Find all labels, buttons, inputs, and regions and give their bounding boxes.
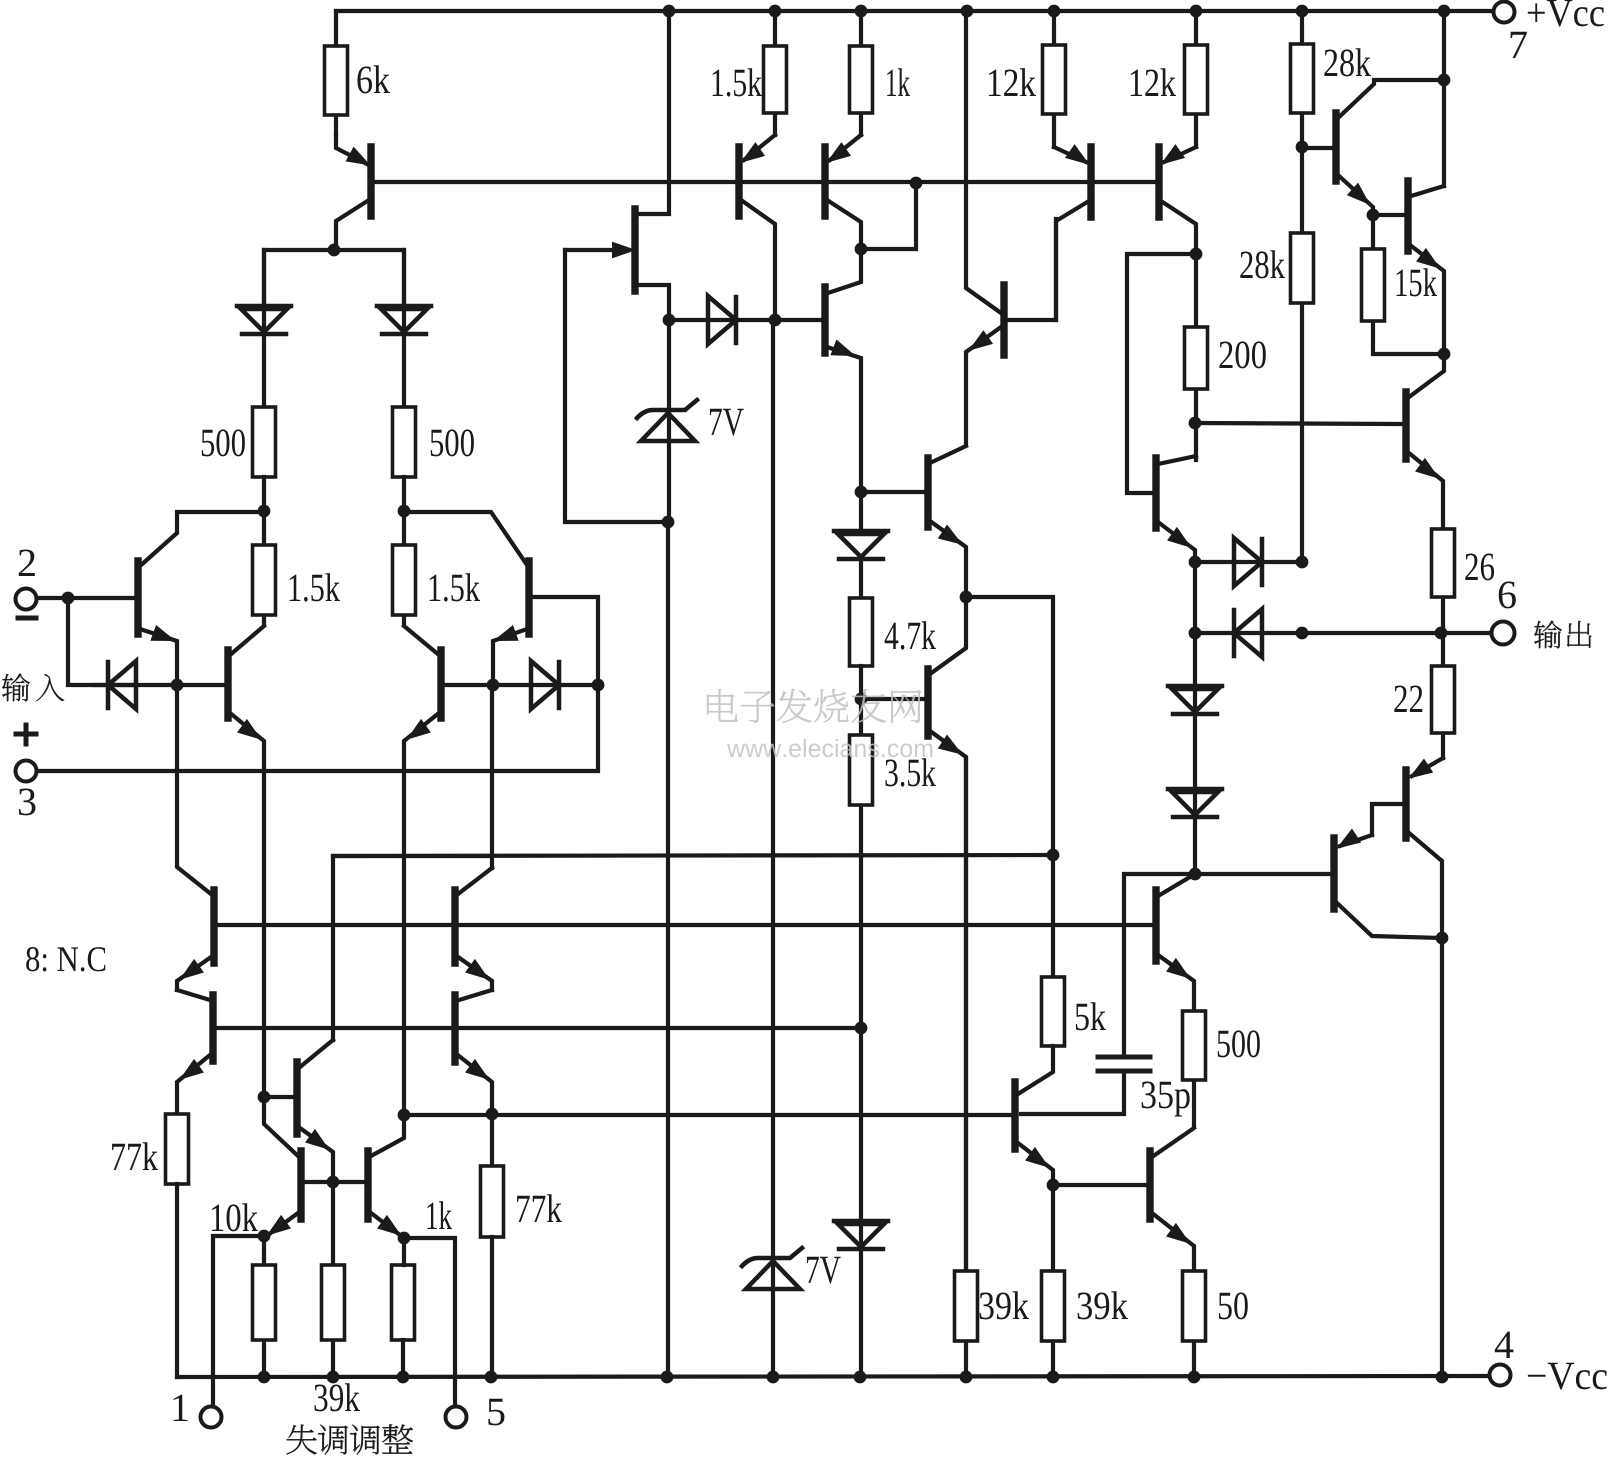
node dot (861,1028) (855, 1022, 868, 1035)
label 77k-R (517, 1194, 562, 1222)
diode D1 level-shift left (237, 304, 291, 309)
transistor Q9 emitter arrow (939, 526, 960, 543)
transistor Q24 emitter arrow (467, 961, 487, 978)
transistor Q4 emitter lead (493, 629, 527, 685)
transistor Q26 base bar (293, 1062, 300, 1134)
node dot (1442,938) (1436, 932, 1449, 945)
transistor Q11 collector lead (1056, 201, 1089, 320)
wire Q28 base (333, 1180, 365, 1184)
node A1 dot (264,511) (258, 505, 271, 518)
label pin 2 (19, 550, 35, 576)
transistor Q25 emitter arrow (467, 1061, 487, 1078)
resistor 77k-R (481, 1166, 504, 1237)
node tail node dot (334,250) (328, 244, 341, 257)
wire Q15 base (1373, 213, 1405, 217)
transistor Q5 collector lead (404, 626, 439, 655)
diode D10 (1168, 684, 1222, 689)
wire 77k-L to rail (175, 1184, 179, 1377)
transistor Q21 emitter arrow (1339, 830, 1360, 847)
wire diode row y=633 (1195, 562, 1490, 633)
transistor Q13 emitter arrow (1169, 529, 1189, 546)
transistor Q4 emitter arrow (496, 627, 517, 640)
label pin 4 (1495, 1332, 1514, 1358)
terminal -Vcc pin 4 circle (1490, 1365, 1511, 1386)
label 7V lower (807, 1257, 841, 1284)
transistor Q20 emitter lead (1412, 758, 1443, 776)
resistor 1k wires (859, 11, 863, 135)
node dot (1373,215) (1367, 209, 1380, 222)
transistor Q5 emitter arrow (409, 721, 429, 738)
resistor offset-mid (322, 1265, 345, 1340)
transistor Q15 emitter lead (1410, 245, 1444, 354)
transistor Q22 emitter arrow (182, 961, 202, 978)
resistor 1.5k left (253, 545, 276, 615)
diode D10 wires (1193, 633, 1197, 874)
wire 4.7k to node (859, 666, 863, 699)
label 35p (1142, 1082, 1190, 1117)
label 10k (212, 1203, 258, 1231)
transistor Q3 emitter arrow (239, 721, 259, 738)
transistor Q15 emitter arrow (1418, 250, 1438, 267)
transistor Q16 collector lead (1158, 874, 1195, 896)
label 39k-2 (1078, 1291, 1128, 1319)
node dot (1444,354) (1438, 348, 1451, 361)
resistor 39k-1 wires (964, 759, 968, 1377)
label 26 (1465, 554, 1494, 581)
transistor Q9c emitter arrow (971, 332, 991, 349)
node dot (1196,254) (1190, 248, 1203, 261)
transistor Q25 base bar (451, 995, 458, 1062)
zener Z1 7V (637, 400, 697, 418)
node -Vcc rail junction dots (258, 1371, 271, 1384)
transistor Q5 base bar (437, 650, 444, 718)
transistor Q24 collector lead (458, 868, 492, 894)
node dot (1195,562) (1189, 556, 1202, 569)
label +Vcc (1528, 0, 1604, 27)
transistor Q13 base bar (1152, 458, 1159, 528)
transistor Q22 collector lead (177, 685, 211, 894)
transistor Q16 emitter lead (1158, 955, 1194, 1011)
transistor Q8 base bar (821, 287, 828, 353)
label 7V upper (710, 409, 744, 436)
terminal pin 5 circle (446, 1407, 467, 1428)
transistor Q18 emitter lead (1018, 1143, 1053, 1185)
transistor Q2 emitter arrow (152, 627, 173, 640)
label 77k-L (112, 1142, 158, 1170)
transistor Q27 emitter lead (264, 1213, 298, 1238)
resistor 39k-1 (955, 1271, 978, 1341)
label 8 N.C (26, 947, 105, 971)
transistor Q3 base bar (224, 650, 231, 718)
resistor 15k (1362, 249, 1385, 321)
node dot (775,320) (769, 314, 782, 327)
node dot (1302,633) (1296, 627, 1309, 640)
transistor Q7 emitter arrow (829, 144, 849, 161)
jfet J1 gate wire (565, 248, 614, 252)
wire -Vcc rail (177, 1376, 1489, 1377)
watermark (707, 689, 932, 757)
label 500 right (431, 429, 474, 456)
resistor 26 (1432, 529, 1455, 597)
wire 5k top (1051, 855, 1055, 977)
node dot (966,597) (960, 591, 973, 604)
node bus dot x=916 (910, 177, 923, 190)
label 50 (1219, 1292, 1248, 1319)
wire diode row y=562 (1195, 560, 1302, 564)
transistor Q8 collector lead (828, 249, 861, 293)
label 5k (1076, 1002, 1106, 1030)
wire pin3 to right cell base (37, 597, 598, 771)
transistor Q9c collector lead (966, 11, 1001, 313)
node dot (861,699) (855, 693, 868, 706)
wire D3 to Q3 base (94, 683, 225, 687)
resistor 1.5k left wires (262, 511, 266, 624)
transistor Q26 emitter lead (300, 1128, 333, 1182)
wire left bottom resistor (262, 1236, 266, 1377)
resistor 22 wires (1441, 633, 1445, 758)
transistor Q9c emitter lead (966, 327, 1001, 444)
transistor Q18 base bar (1011, 1082, 1018, 1149)
transistor Q1 emitter lead (336, 135, 367, 164)
transistor Q23 collector lead (177, 990, 210, 1000)
transistor Q7 collector lead (827, 200, 861, 249)
node A2 dot (404,511) (398, 505, 411, 518)
resistor 200 (1185, 327, 1208, 389)
transistor Q25 emitter lead (459, 1056, 492, 1166)
node dot (1053,855) (1047, 849, 1060, 862)
label plus above pin 3 (16, 725, 36, 744)
transistor Q20 base bar (1402, 770, 1409, 838)
node dot (492,1114) (486, 1108, 499, 1121)
diode D3 input clamp left (108, 661, 136, 709)
label 28k first (1324, 48, 1371, 76)
node dot (668,522) (662, 516, 675, 529)
transistor Q21 collector lead (1337, 903, 1442, 938)
wire D1 to R-500L (262, 250, 266, 407)
label 4.7k (885, 621, 936, 649)
label 500 left (202, 429, 245, 456)
node right cell dot (598,685) (592, 679, 605, 692)
wire (1196,254)-(1127,254)-(1127,493)-Q13 base (1127, 254, 1196, 493)
transistor Q23 emitter lead (177, 1055, 210, 1114)
zener Z2 7V (742, 1248, 802, 1266)
wire Q14 base (1302, 146, 1333, 150)
transistor Q28 collector lead (371, 1115, 404, 1156)
label output 输出 (1534, 621, 1592, 649)
resistor 500 left (253, 407, 276, 477)
transistor Q10 base bar (924, 669, 931, 736)
label 12k second (1131, 68, 1176, 96)
transistor Q16 emitter arrow (1168, 960, 1188, 977)
node +Vcc rail junction dots (663, 5, 676, 18)
transistor Q5 emitter lead (404, 713, 439, 1115)
node dot (404,1115) (398, 1109, 411, 1122)
resistor 500 vas (1183, 1011, 1206, 1080)
transistor Q10 emitter lead (930, 731, 966, 1271)
transistor Q23 emitter arrow (182, 1061, 202, 1078)
resistor offset-right (392, 1265, 415, 1340)
transistor Q13 collector lead (1158, 456, 1196, 464)
wire Q16 base bus y=925 (215, 923, 1153, 927)
transistor Q23 base bar (209, 995, 216, 1061)
transistor Q3 emitter lead (230, 713, 264, 1097)
transistor Q14 base bar (1332, 113, 1339, 181)
wire Q5 base row (444, 683, 598, 687)
wire lower bus y=1028 (215, 1026, 861, 1030)
label 39k bottom (314, 1383, 359, 1411)
wire D2 to R-500R (402, 250, 406, 407)
resistor 12k first (1043, 45, 1066, 114)
transistor Q27 collector lead (264, 1097, 298, 1156)
transistor Q20 emitter arrow (1411, 760, 1432, 777)
resistor 1.5k right (393, 545, 416, 615)
resistor 50 (1183, 1271, 1206, 1341)
transistor Q6 emitter lead (744, 135, 775, 160)
resistor 5k (1042, 977, 1065, 1046)
terminal output pin 6 circle (1492, 622, 1515, 645)
transistor Qout1 base bar (1402, 392, 1409, 459)
resistor 28k first wires (1300, 11, 1304, 147)
node dot (264,1097) (258, 1091, 271, 1104)
wire y=1114 long (402, 1113, 406, 1117)
resistor 500 right (393, 407, 416, 477)
label pin 7 (1511, 32, 1527, 58)
wire zener Z1 wires (668, 320, 669, 1377)
transistor Q7 emitter lead (830, 135, 861, 160)
wire pin5 branch (403, 1238, 455, 1406)
transistor Q13 emitter lead (1158, 522, 1195, 562)
wire base bus y=182 (373, 180, 1157, 184)
transistor Q16 base bar (1152, 890, 1159, 961)
transistor Q4 base bar (525, 561, 532, 634)
transistor Q11 emitter arrow (1067, 146, 1087, 163)
transistor Q24 base bar (451, 890, 458, 963)
node dot (1195,633) (1189, 627, 1202, 640)
wire 77k-R to rail (490, 1237, 494, 1377)
transistor Q18 collector lead (1018, 1046, 1053, 1094)
transistor Q12 emitter arrow (1163, 146, 1183, 163)
terminal pin 3 non-inverting input circle (16, 761, 37, 782)
capacitor C1 35p (1098, 1057, 1150, 1071)
transistor Q7 base bar (821, 147, 828, 216)
transistor Q12 emitter lead (1164, 147, 1196, 162)
transistor Q28 emitter arrow (379, 1217, 399, 1234)
wire Q24 collector loop (333, 685, 492, 1040)
transistor Q2 base bar (134, 561, 141, 634)
label 1k small (427, 1201, 452, 1229)
node dot (1053,1185) (1047, 1179, 1060, 1192)
wire cap bottom to Q18 base (1021, 1071, 1124, 1114)
resistor 22 (1432, 666, 1455, 733)
diode D4 input clamp right (531, 661, 559, 709)
transistor Q19 emitter lead (1152, 1213, 1194, 1271)
transistor Q28 base bar (364, 1151, 371, 1219)
label pin 3 (19, 789, 36, 816)
transistor Q15 base bar (1404, 181, 1411, 251)
resistor 77k-L (166, 1114, 189, 1184)
resistor 3.5k (850, 735, 873, 805)
label pin 6 (1499, 582, 1516, 609)
transistor Q10 emitter arrow (939, 736, 960, 753)
label pin 1 (174, 1395, 188, 1421)
diode D5 (708, 296, 736, 344)
node dot (404,1238) (398, 1232, 411, 1245)
label 6k (357, 65, 390, 93)
wire tail node horizontal (264, 250, 404, 306)
transistor Q26 emitter arrow (307, 1131, 327, 1148)
jfet J1 drain lead (638, 11, 669, 214)
transistor Q10 collector lead (930, 597, 966, 674)
node pin2 wire dot (68,598) (62, 592, 75, 605)
transistor Q2 collector lead (140, 512, 264, 566)
resistor 26 wires (1441, 529, 1445, 633)
resistor 28k first (1291, 44, 1314, 113)
node dot (1195,423) (1189, 417, 1202, 430)
wire (1195,874)-(1124,874)-cap top (1124, 874, 1195, 1057)
transistor Q27 base bar (297, 1151, 304, 1219)
wire mid resistor column (331, 1182, 335, 1377)
terminal pin 1 circle (201, 1407, 222, 1428)
transistor Q19 base bar (1146, 1151, 1153, 1219)
transistor Q15 collector lead (1411, 186, 1444, 196)
transistor Q24 emitter lead (458, 957, 492, 990)
diode D6 (834, 529, 888, 534)
transistor Q19 emitter arrow (1168, 1225, 1188, 1242)
label -Vcc (1528, 1363, 1607, 1390)
resistor 28k second wires (1300, 147, 1304, 562)
resistor 6k vertical wires (334, 11, 338, 135)
transistor Q9 base bar (924, 458, 931, 527)
diode D7 (834, 1219, 888, 1224)
label 12k first (989, 68, 1036, 96)
label 1.5k right (430, 573, 480, 601)
wire Q26 base (264, 1095, 294, 1099)
wire pin2 to Q2 base (37, 596, 136, 600)
wire R500L to node A1 (262, 477, 266, 511)
node dot (669,320) (663, 314, 676, 327)
transistor Q9 emitter lead (930, 521, 966, 597)
transistor Q20 base lead (1372, 804, 1403, 835)
resistor 50 wires (1192, 1341, 1196, 1377)
transistor Q20 collector lead (1409, 833, 1442, 1377)
label 1k (887, 68, 910, 96)
node dot (1302,562) (1296, 556, 1309, 569)
resistor 3.5k wires (859, 699, 863, 1028)
wire (966,597)-(1053,597)-(1053,855) (966, 597, 1053, 855)
transistor Q6 collector lead (741, 200, 775, 320)
transistor Q11 base bar (1087, 147, 1094, 217)
label 500 vas (1218, 1030, 1260, 1057)
transistor Q6 base bar (735, 147, 742, 216)
resistor offset-left (253, 1265, 276, 1340)
node dot (264,1236) (258, 1230, 271, 1243)
transistor Q25 collector lead (459, 990, 492, 1000)
label 1.5k top (713, 68, 762, 96)
transistor Qout1 emitter lead (1409, 453, 1443, 529)
transistor Q4 collector lead (404, 512, 527, 565)
diode D8 (1234, 538, 1262, 586)
wire pin2 branch down to diode (68, 598, 136, 685)
resistor 1.5k top wires (773, 11, 777, 135)
jfet J1 gate bar (631, 209, 638, 291)
wire y=855 horizontal (333, 855, 1053, 856)
diode D7 wires (859, 1028, 863, 1377)
transistor Q26 collector lead (300, 1040, 333, 1067)
transistor Q27 emitter arrow (269, 1217, 289, 1234)
label 28k second (1240, 250, 1285, 278)
transistor Q2 emitter lead (140, 629, 177, 684)
transistor Q1 base bar (367, 147, 374, 216)
label 15k (1397, 268, 1438, 296)
resistor 500 vas wires (1192, 1011, 1196, 1126)
transistor Q14 emitter lead (1338, 175, 1373, 215)
label 39k-1 (980, 1291, 1029, 1319)
transistor Q28 emitter lead (371, 1213, 404, 1238)
transistor Q21 base bar (1330, 838, 1337, 909)
wire (861,249)-(916,249)-(916,183) (861, 183, 916, 249)
resistor 12k first wires (1052, 11, 1056, 147)
node dot (861,492) (855, 486, 868, 499)
transistor Q1 emitter arrow (347, 148, 368, 164)
resistor 6k (325, 46, 348, 115)
transistor Q9c base lead (1007, 219, 1056, 320)
transistor Q14 emitter arrow (1349, 184, 1369, 203)
wire Qout1 base y=424 (1195, 423, 1403, 424)
transistor Q22 base bar (210, 890, 217, 963)
wire Q10 base (861, 697, 925, 701)
transistor Q22 emitter lead (177, 957, 211, 990)
zener Z2 7V wires (771, 320, 775, 1377)
diode D9 (1234, 609, 1262, 657)
jfet J1 gate arrow (613, 243, 633, 257)
wire Q27 base (304, 1180, 333, 1184)
transistor Q1 collector lead (336, 200, 369, 250)
wire x=1444 top segment (1442, 11, 1446, 186)
wire Q9 base (861, 490, 925, 494)
wire diode row y=320 (669, 318, 822, 322)
node input left node dot (177,685) (171, 679, 184, 692)
wire D6 wires (859, 492, 863, 598)
wire 39k-2 column (1051, 1185, 1055, 1377)
node dot (861,249) (855, 243, 868, 256)
transistor Q18 emitter arrow (1027, 1149, 1047, 1166)
resistor 12k second (1185, 45, 1208, 114)
wire Q18 base wire (404, 1113, 1012, 1117)
transistor Q19 collector lead (1152, 1128, 1194, 1157)
terminal pin 2 inverting input circle (16, 589, 37, 610)
resistor 12k second wires (1194, 11, 1198, 147)
transistor Q14 collector lead (1338, 80, 1444, 118)
resistor 28k second (1291, 233, 1314, 303)
resistor 39k-2 (1042, 1271, 1065, 1341)
resistor 1k (850, 46, 873, 113)
terminal +Vcc pin 7 circle (1494, 2, 1515, 23)
diode D11 (1168, 787, 1222, 792)
resistor 200 wires (1194, 254, 1198, 460)
resistor 1.5k right wires (402, 511, 406, 624)
wire R500R to node A2 (402, 477, 406, 511)
diode D2 level-shift right (377, 304, 431, 309)
transistor Q12 base bar (1155, 147, 1162, 217)
node dot (1441,633) (1435, 627, 1448, 640)
transistor Q6 emitter arrow (743, 144, 763, 161)
node dot (333,1182) (327, 1176, 340, 1189)
transistor Q21 emitter lead (1340, 835, 1372, 846)
label 3.5k (885, 758, 936, 786)
resistor 4.7k (850, 598, 873, 666)
transistor Q3 collector lead (230, 626, 264, 655)
node right cell dot (493,685) (487, 679, 500, 692)
